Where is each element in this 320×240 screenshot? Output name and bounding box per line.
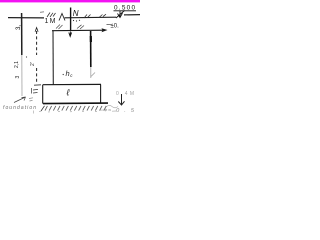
svg-text:foundation: foundation [3, 105, 36, 111]
dot near dim line [26, 56, 27, 57]
scribble above floor line left [56, 25, 63, 30]
svg-text:2': 2' [30, 62, 36, 66]
column right edge faint lower [91, 67, 96, 78]
hatch tick below footing corner [41, 106, 45, 111]
dashed dimension label [30, 62, 36, 66]
load line N [70, 8, 72, 31]
small equals marks [32, 88, 39, 94]
footing bottom edge [43, 102, 108, 105]
base hatching [45, 106, 106, 111]
footing right edge [100, 85, 102, 104]
pointer arrow bottom left [14, 97, 26, 103]
floor level line with right arrow [52, 29, 105, 32]
ground hatch mid group [84, 15, 91, 19]
floor line arrowhead [102, 28, 108, 32]
svg-text:1M: 1M [45, 18, 56, 25]
rotated label lower [15, 76, 21, 79]
scribble left of corner [29, 98, 33, 101]
magenta scan strip [0, 0, 140, 2]
level triangle [59, 14, 65, 21]
dash near plus-minus label [107, 23, 113, 25]
column right edge [90, 31, 92, 67]
dashed dimension line upper [36, 31, 38, 55]
background [0, 0, 140, 118]
ground hatch right group [100, 14, 107, 17]
rotated label upper [16, 25, 22, 30]
svg-text:h: h [66, 69, 70, 78]
footing top tick left [34, 84, 41, 86]
load arrowhead below floor line [69, 32, 72, 37]
elevation underline [114, 10, 137, 12]
svg-text:3,: 3, [16, 25, 22, 30]
svg-text:2,1: 2,1 [14, 61, 20, 68]
scribble above floor line right [77, 25, 84, 29]
down arrow bottom right [118, 94, 124, 105]
left dimension line upper [21, 13, 23, 55]
dashed line arrowhead up [35, 28, 38, 32]
ground surface line right segment [124, 14, 140, 16]
level mark arrow [116, 11, 125, 19]
footing left edge [42, 85, 44, 104]
svg-text:0,4M: 0,4M [116, 91, 134, 97]
left dimension line lower faint [21, 55, 23, 96]
dashed dimension line lower [36, 68, 38, 84]
ground hatch left group [47, 13, 56, 18]
column left edge [52, 31, 54, 85]
rotated label middle [14, 61, 20, 68]
ground surface line left segment [8, 17, 44, 19]
faint squiggle bottom right [106, 105, 118, 107]
svg-text:3: 3 [15, 76, 21, 79]
svg-text:ℓ: ℓ [66, 88, 70, 98]
ground surface line mid segment [65, 16, 117, 19]
footing top edge [43, 83, 101, 85]
column edge blob [90, 36, 92, 42]
stray tick above hatch [40, 11, 44, 14]
svg-text:N: N [73, 9, 79, 18]
dots under N [73, 20, 74, 21]
faint dots along base level [34, 109, 117, 114]
